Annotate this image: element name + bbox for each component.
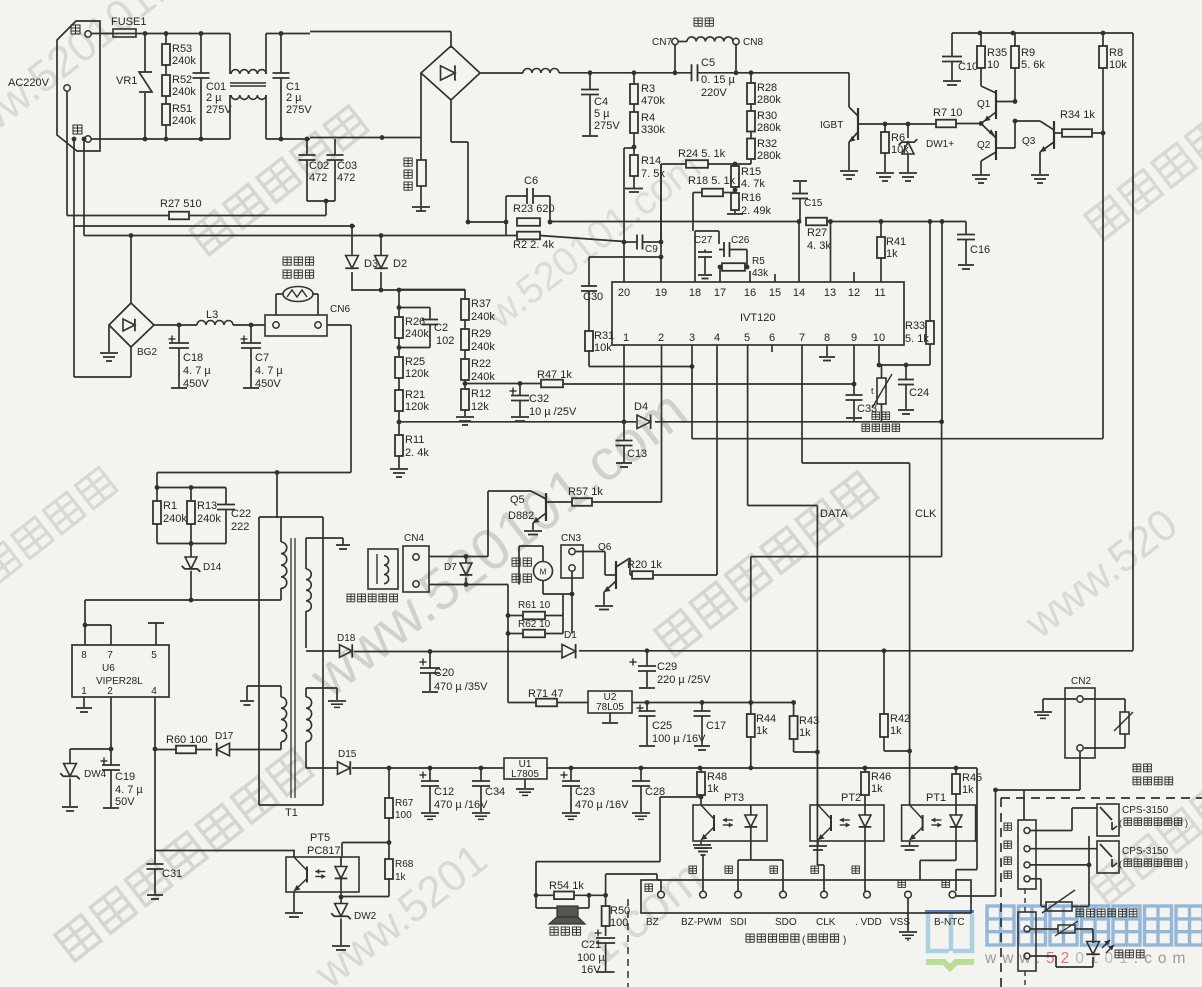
wire pin5 DATA route bbox=[747, 345, 749, 506]
wire long 422 rail bbox=[399, 421, 636, 423]
bridge rectifier (main) bbox=[421, 46, 480, 100]
AC plug AC220V bbox=[57, 21, 100, 151]
svg-text:4. 7 µ: 4. 7 µ bbox=[183, 365, 211, 377]
svg-text:240k: 240k bbox=[163, 513, 187, 525]
svg-text:5. 1k: 5. 1k bbox=[905, 333, 929, 345]
wire bridge lower-left to shunt bbox=[420, 73, 422, 160]
svg-text:R67: R67 bbox=[395, 798, 414, 809]
svg-text:2. 4k: 2. 4k bbox=[405, 447, 429, 459]
wire BG2 top to rail B bbox=[130, 236, 132, 304]
capacitor C7 4.7u 450V bbox=[241, 338, 248, 340]
svg-text:R46: R46 bbox=[871, 771, 891, 783]
resistor R37 240k bbox=[461, 299, 469, 320]
wire SDI stub bbox=[737, 880, 739, 891]
wire CN4 to D7 net bbox=[429, 556, 488, 558]
svg-text:D17: D17 bbox=[215, 731, 234, 742]
svg-text:BG2: BG2 bbox=[137, 347, 157, 358]
resistor R46 1k bbox=[861, 772, 869, 795]
thermistor pot bottom NTC bbox=[1084, 698, 1125, 700]
wire R1 R13 bottom bbox=[157, 543, 226, 545]
resistor R43 1k bbox=[790, 716, 798, 739]
resistor R35 10 bbox=[980, 33, 982, 46]
svg-text:18: 18 bbox=[689, 287, 701, 299]
connector lid 2pin bbox=[1018, 912, 1036, 971]
wire BZ stub bbox=[660, 880, 662, 891]
capacitor C18 4.7u 450V bbox=[169, 338, 176, 340]
svg-text:C6: C6 bbox=[524, 175, 538, 187]
svg-text:5 µ: 5 µ bbox=[594, 108, 610, 120]
svg-text:472: 472 bbox=[309, 172, 327, 184]
IC U3 IVT120 bbox=[612, 282, 904, 345]
watermark jiadian top-right bbox=[1085, 91, 1202, 240]
wire R31 to pin3 bbox=[589, 366, 692, 368]
capacitor C5 0.15u 220V bbox=[691, 64, 693, 81]
capacitor C17 bbox=[701, 703, 703, 712]
capacitor C33 bbox=[853, 384, 855, 395]
svg-text:12k: 12k bbox=[471, 401, 489, 413]
capacitor C03 472 bbox=[334, 139, 336, 155]
svg-text:222: 222 bbox=[231, 521, 249, 533]
wire R1 R13 top bbox=[157, 487, 226, 489]
svg-text:280k: 280k bbox=[757, 94, 781, 106]
svg-text:100: 100 bbox=[395, 810, 412, 821]
wire R4 junction to pin20 column bbox=[624, 147, 634, 149]
wire rail A to pin14 bbox=[797, 219, 802, 224]
svg-text:1k: 1k bbox=[395, 872, 407, 883]
svg-text:D882: D882 bbox=[508, 510, 534, 522]
svg-text:R27 510: R27 510 bbox=[160, 198, 202, 210]
wire lid lower pin2 loop bbox=[1030, 955, 1056, 957]
wire pin2 to C19 node bbox=[110, 697, 112, 749]
wire lid pin1 to switch1 bbox=[1030, 830, 1072, 832]
svg-text:): ) bbox=[1185, 818, 1188, 828]
svg-text:R41: R41 bbox=[886, 236, 906, 248]
diode D3 bbox=[351, 226, 353, 256]
svg-text:R60 100: R60 100 bbox=[166, 734, 208, 746]
svg-text:R13: R13 bbox=[197, 500, 217, 512]
wire PT1 led cathode bbox=[955, 841, 957, 860]
wire R54 up right bbox=[656, 874, 658, 880]
svg-text:5. 6k: 5. 6k bbox=[1021, 59, 1045, 71]
LED indicator bbox=[1087, 942, 1100, 955]
wire top right rail bbox=[952, 32, 1133, 34]
svg-text:C15: C15 bbox=[804, 198, 823, 209]
resistor R8 10k bbox=[1102, 33, 1104, 46]
svg-text:120k: 120k bbox=[405, 401, 429, 413]
svg-text:R44: R44 bbox=[756, 713, 776, 725]
svg-text:R9: R9 bbox=[1021, 47, 1035, 59]
svg-text:1k: 1k bbox=[890, 725, 902, 737]
wire bridge output rail bbox=[480, 72, 523, 74]
resistor R32 280k bbox=[747, 139, 755, 160]
svg-text:SDI: SDI bbox=[730, 917, 747, 928]
svg-text:C18: C18 bbox=[183, 352, 203, 364]
svg-text:M: M bbox=[540, 568, 547, 577]
wire PT2 collector from DATA bbox=[816, 752, 818, 805]
svg-text:R62 10: R62 10 bbox=[518, 619, 551, 630]
svg-text:4: 4 bbox=[714, 332, 720, 344]
wire pin10 row bbox=[878, 345, 880, 365]
resistor R45 1k bbox=[952, 774, 960, 794]
svg-text:470 µ /35V: 470 µ /35V bbox=[434, 681, 488, 693]
capacitor C23 470u/16V bbox=[561, 774, 568, 776]
svg-text:C24: C24 bbox=[909, 387, 929, 399]
svg-text:R25: R25 bbox=[405, 356, 425, 368]
svg-text:R31: R31 bbox=[594, 330, 614, 342]
wire BG2 out bbox=[154, 324, 197, 326]
capacitor C9 bbox=[636, 235, 638, 250]
wire CN6 right down to R1 rail bbox=[327, 324, 351, 326]
svg-text:1k: 1k bbox=[756, 725, 768, 737]
wire pin12 stub bbox=[853, 272, 855, 282]
svg-text:R4: R4 bbox=[641, 112, 655, 124]
capacitor C01 2u 275V bbox=[200, 34, 202, 74]
IC U6 VIPER28L bbox=[72, 645, 169, 697]
svg-text:470k: 470k bbox=[641, 95, 665, 107]
svg-text:CN8: CN8 bbox=[743, 37, 763, 48]
wire PT3 emitter ground bbox=[700, 841, 702, 844]
logo green swoosh bbox=[926, 962, 974, 968]
capacitor C29 220u/25V bbox=[630, 661, 637, 663]
svg-text:100: 100 bbox=[610, 917, 628, 929]
resistor R22 240k bbox=[461, 359, 469, 380]
svg-text:1k: 1k bbox=[799, 727, 811, 739]
zener DW4 bbox=[64, 764, 77, 777]
svg-text:0. 15 µ: 0. 15 µ bbox=[701, 74, 736, 86]
thermal fuse pot-bottom bbox=[283, 257, 314, 265]
wire CN6 feed rail bbox=[157, 472, 351, 474]
svg-text:DATA: DATA bbox=[820, 508, 848, 520]
resistor R1 240k bbox=[156, 488, 158, 502]
wire AC to bridge bbox=[310, 31, 451, 33]
wire C02 C03 junction bbox=[307, 200, 335, 202]
svg-text:C29: C29 bbox=[657, 661, 677, 673]
svg-text:240k: 240k bbox=[405, 328, 429, 340]
svg-text:10k: 10k bbox=[1109, 59, 1127, 71]
svg-text:B-NTC: B-NTC bbox=[934, 917, 965, 928]
resistor R13 240k bbox=[190, 488, 192, 502]
svg-text:14: 14 bbox=[793, 287, 805, 299]
svg-text:R43: R43 bbox=[799, 715, 819, 727]
svg-text:16: 16 bbox=[744, 287, 756, 299]
svg-text:R57 1k: R57 1k bbox=[568, 486, 603, 498]
wire R61 R62 right bracket bbox=[562, 594, 564, 634]
svg-text:R54 1k: R54 1k bbox=[549, 880, 584, 892]
wire rail R23 (rail A right) bbox=[466, 220, 471, 225]
svg-text:2 µ: 2 µ bbox=[286, 92, 302, 104]
svg-text:IGBT: IGBT bbox=[820, 120, 843, 131]
resistor R16 2.49k bbox=[731, 193, 739, 210]
capacitor C02 472 bbox=[306, 139, 308, 155]
svg-text:D4: D4 bbox=[634, 401, 648, 413]
svg-text:C03: C03 bbox=[337, 160, 357, 172]
transformer T1 outline bbox=[258, 517, 260, 805]
svg-text:www.520101.com: www.520101.com bbox=[984, 950, 1191, 967]
svg-text:7: 7 bbox=[799, 332, 805, 344]
resistor R42 1k bbox=[880, 714, 888, 737]
resistor R29 240k bbox=[461, 329, 469, 350]
svg-text:2: 2 bbox=[107, 686, 113, 697]
svg-text:240k: 240k bbox=[471, 311, 495, 323]
svg-text:240k: 240k bbox=[172, 55, 196, 67]
svg-text:R21: R21 bbox=[405, 389, 425, 401]
svg-text:CLK: CLK bbox=[816, 917, 836, 928]
svg-text:8: 8 bbox=[824, 332, 830, 344]
svg-text:D7: D7 bbox=[444, 562, 457, 573]
svg-text:470 µ /16V: 470 µ /16V bbox=[575, 799, 629, 811]
wire lid pin2 to switch2 bbox=[1030, 848, 1097, 850]
svg-text:C02: C02 bbox=[309, 160, 329, 172]
wire VSS ground bbox=[907, 898, 909, 931]
wire R33 top bbox=[928, 219, 933, 224]
svg-text:4. 7 µ: 4. 7 µ bbox=[255, 365, 283, 377]
resistor R48 1k bbox=[697, 772, 705, 795]
svg-text:275V: 275V bbox=[594, 120, 620, 132]
svg-text:10: 10 bbox=[873, 332, 885, 344]
wire DW4 node bbox=[70, 748, 111, 750]
wire pin1 ground bbox=[83, 697, 85, 707]
svg-text:R48: R48 bbox=[707, 771, 727, 783]
wire pin7 CLK route bbox=[801, 345, 803, 463]
svg-text:C2: C2 bbox=[434, 322, 448, 334]
wire pin6 stub bbox=[771, 345, 773, 352]
svg-text:275V: 275V bbox=[286, 104, 312, 116]
svg-text:1k: 1k bbox=[962, 784, 974, 796]
svg-text:330k: 330k bbox=[641, 124, 665, 136]
svg-text:C26: C26 bbox=[731, 235, 750, 246]
svg-text:102: 102 bbox=[436, 335, 454, 347]
svg-text:2 µ: 2 µ bbox=[206, 92, 222, 104]
svg-text:240k: 240k bbox=[471, 371, 495, 383]
svg-text:CN3: CN3 bbox=[561, 533, 581, 544]
diode D2 bbox=[380, 236, 382, 257]
svg-text:C5: C5 bbox=[701, 57, 715, 69]
wire D3 rail to R37 bbox=[399, 289, 465, 291]
svg-text:FUSE1: FUSE1 bbox=[111, 16, 146, 28]
wire viper aux rail bbox=[85, 599, 259, 601]
svg-text:C25: C25 bbox=[652, 720, 672, 732]
wire 18V rail 651 bbox=[430, 651, 561, 653]
svg-text:R18 5. 1k: R18 5. 1k bbox=[688, 175, 736, 187]
svg-text:R7 10: R7 10 bbox=[933, 107, 962, 119]
svg-text:. VDD: . VDD bbox=[855, 917, 882, 928]
capacitor C1 2u 275V bbox=[280, 34, 282, 74]
wire D3 D2 output bbox=[352, 289, 465, 291]
svg-text:C12: C12 bbox=[434, 786, 454, 798]
svg-text:R37: R37 bbox=[471, 298, 491, 310]
thermistor lid NTC bbox=[1030, 878, 1041, 880]
resistor R52 240k bbox=[162, 75, 170, 96]
svg-text:AC220V: AC220V bbox=[8, 77, 50, 89]
svg-text:C32: C32 bbox=[529, 393, 549, 405]
wire BZ-PWM ground stub bbox=[702, 855, 704, 891]
svg-text:4. 3k: 4. 3k bbox=[807, 240, 831, 252]
wire pin4 to R20 bbox=[716, 345, 718, 575]
logo book icon bbox=[928, 914, 972, 951]
capacitor C19 4.7u 50V bbox=[101, 760, 108, 762]
capacitor C34 bbox=[480, 768, 482, 781]
wire R62 bracket down bbox=[507, 616, 509, 703]
wire pin2 to R57 bbox=[661, 345, 663, 502]
wire pin8 ground bbox=[826, 345, 828, 356]
svg-text:R12: R12 bbox=[471, 388, 491, 400]
resistor R2 2.4k bbox=[517, 232, 540, 240]
wire motor bottom bbox=[542, 581, 544, 595]
svg-text:R68: R68 bbox=[395, 859, 414, 870]
resistor R15 4.7k bbox=[731, 166, 739, 187]
wire 5V rail 702 bbox=[632, 702, 794, 704]
svg-text:IVT120: IVT120 bbox=[740, 312, 775, 324]
svg-text:T1: T1 bbox=[285, 807, 298, 819]
svg-text:240k: 240k bbox=[172, 86, 196, 98]
svg-text:120k: 120k bbox=[405, 368, 429, 380]
svg-text:C22: C22 bbox=[231, 508, 251, 520]
svg-text:CN2: CN2 bbox=[1071, 676, 1091, 687]
wire pin18 link bbox=[694, 231, 696, 282]
svg-text:C23: C23 bbox=[575, 786, 595, 798]
capacitor C32 10u/25V bbox=[510, 390, 517, 392]
svg-text:CN6: CN6 bbox=[330, 304, 350, 315]
wire 5V rail drop right bbox=[976, 768, 978, 870]
capacitor C21 100u 16V bbox=[595, 932, 602, 934]
board title bbox=[746, 934, 799, 942]
wire PT2 led cathode bbox=[864, 841, 866, 891]
wire CLK stub bbox=[823, 865, 825, 891]
wire B-NTC bbox=[956, 895, 996, 897]
resistor R6 10k bbox=[884, 124, 886, 132]
svg-text:R32: R32 bbox=[757, 138, 777, 150]
resistor R11 2.4k bbox=[398, 422, 400, 435]
svg-text:4: 4 bbox=[151, 686, 157, 697]
svg-text:100 µ /16V: 100 µ /16V bbox=[652, 733, 706, 745]
connector CN8 bbox=[733, 38, 739, 44]
wire 12V rail 768 bbox=[405, 767, 504, 769]
watermark jiadian left-mid bbox=[0, 467, 117, 583]
T1 winding low left bbox=[281, 697, 287, 742]
svg-text:VR1: VR1 bbox=[116, 75, 137, 87]
wire pin19 column bbox=[660, 164, 662, 282]
wire CLK drop to R44 bbox=[941, 422, 943, 557]
svg-text:Q1: Q1 bbox=[977, 99, 991, 110]
svg-text:R20 1k: R20 1k bbox=[627, 559, 662, 571]
svg-text:C9: C9 bbox=[645, 244, 658, 255]
wire motor top bbox=[542, 546, 544, 562]
svg-text:1k: 1k bbox=[707, 783, 719, 795]
wire bottom AC line bbox=[91, 138, 230, 140]
wire CN3 pin1 to Q6 bbox=[575, 551, 605, 553]
svg-text:C34: C34 bbox=[485, 786, 505, 798]
svg-text:VIPER28L: VIPER28L bbox=[96, 676, 143, 687]
svg-text:CPS-3150: CPS-3150 bbox=[1122, 846, 1169, 857]
svg-text:R11: R11 bbox=[405, 434, 424, 446]
wire R48 to buzzer net bbox=[660, 796, 701, 798]
svg-text:): ) bbox=[1185, 859, 1188, 869]
svg-text:C20: C20 bbox=[434, 667, 454, 679]
svg-text:19: 19 bbox=[655, 287, 667, 299]
solenoid valve icon bbox=[368, 549, 398, 589]
svg-text:R1: R1 bbox=[163, 500, 177, 512]
resistor R14 7.5k bbox=[630, 155, 638, 176]
svg-text:Q6: Q6 bbox=[598, 542, 612, 553]
wire top AC line bbox=[91, 33, 113, 35]
svg-text:10: 10 bbox=[987, 59, 999, 71]
capacitor C16 bbox=[965, 222, 967, 235]
resistor R33 5.1k bbox=[929, 222, 931, 322]
svg-text:Q5: Q5 bbox=[510, 494, 525, 506]
wire PT3 led column bbox=[750, 841, 752, 860]
svg-text:1: 1 bbox=[623, 332, 629, 344]
resistor R31 10k bbox=[585, 331, 593, 351]
wire rail to IGBT bbox=[749, 70, 754, 75]
svg-text:280k: 280k bbox=[757, 150, 781, 162]
zener DW2 bbox=[335, 904, 348, 917]
svg-text:10 µ /25V: 10 µ /25V bbox=[529, 406, 577, 418]
svg-text:L7805: L7805 bbox=[511, 769, 539, 780]
svg-text:3: 3 bbox=[689, 332, 695, 344]
svg-text:4. 7 µ: 4. 7 µ bbox=[115, 784, 143, 796]
wire pin9 column bbox=[853, 345, 855, 384]
svg-text:1: 1 bbox=[81, 686, 87, 697]
svg-text:17: 17 bbox=[714, 287, 726, 299]
resistor R68 1k bbox=[385, 859, 393, 879]
dashed separator bbox=[627, 899, 629, 987]
wire rail B C9 junction bbox=[622, 240, 627, 245]
watermark jiadian center-right bbox=[655, 472, 878, 656]
inductor filter bbox=[523, 69, 559, 73]
svg-text:L3: L3 bbox=[206, 309, 218, 321]
T1 winding low right bbox=[306, 697, 312, 742]
svg-text:R23 620: R23 620 bbox=[513, 203, 555, 215]
capacitor C2 102 bbox=[399, 307, 430, 309]
wire pin1 column bbox=[623, 345, 625, 422]
svg-text:R34 1k: R34 1k bbox=[1060, 109, 1095, 121]
resistor R50 100 bbox=[602, 906, 610, 926]
wire PT5 emitter ground bbox=[293, 892, 295, 912]
ground pin5 bar bbox=[148, 622, 164, 624]
svg-text:DW2: DW2 bbox=[354, 911, 377, 922]
svg-text:R2 2. 4k: R2 2. 4k bbox=[513, 239, 554, 251]
bridge rectifier BG2 bbox=[109, 303, 154, 347]
wire rail A (zero-cross) bbox=[73, 139, 75, 226]
svg-text:5: 5 bbox=[151, 650, 157, 661]
svg-text:PT3: PT3 bbox=[724, 792, 744, 804]
resistor R3 470k bbox=[633, 73, 635, 84]
svg-text:SDO: SDO bbox=[775, 917, 797, 928]
heating coil pan bbox=[694, 18, 713, 26]
capacitor C30 bbox=[589, 256, 661, 258]
svg-text:DW1+: DW1+ bbox=[926, 139, 954, 150]
resistor R28 280k bbox=[750, 73, 752, 83]
svg-text:D15: D15 bbox=[338, 749, 357, 760]
dashed boundary bbox=[1001, 797, 1202, 799]
svg-text:16V: 16V bbox=[581, 964, 601, 976]
svg-text:Q2: Q2 bbox=[977, 140, 991, 151]
svg-text:6: 6 bbox=[769, 332, 775, 344]
svg-text:R52: R52 bbox=[172, 74, 192, 86]
resistor R44 1k bbox=[747, 714, 755, 737]
svg-text:2: 2 bbox=[658, 332, 664, 344]
capacitor C10 bbox=[951, 33, 953, 56]
wire PT5 led anode from R68 bbox=[342, 842, 389, 844]
resistor R53 240k bbox=[165, 34, 167, 45]
svg-text:R61 10: R61 10 bbox=[518, 600, 551, 611]
resistor R26 240k bbox=[398, 290, 400, 317]
svg-text:C4: C4 bbox=[594, 96, 608, 108]
svg-text:R42: R42 bbox=[890, 713, 910, 725]
svg-text:C21: C21 bbox=[581, 939, 601, 951]
watermark jiadian bottom-left bbox=[55, 749, 313, 961]
svg-text:PT5: PT5 bbox=[310, 832, 330, 844]
